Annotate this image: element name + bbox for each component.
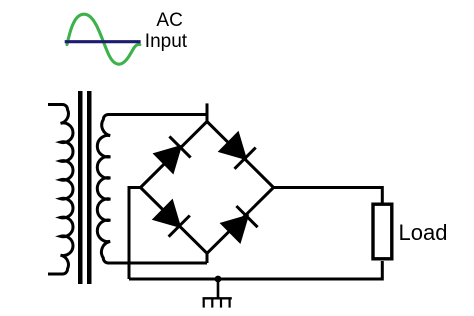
- svg-text:Load: Load: [399, 220, 448, 245]
- svg-text:AC: AC: [156, 10, 182, 31]
- svg-text:Input: Input: [145, 31, 188, 52]
